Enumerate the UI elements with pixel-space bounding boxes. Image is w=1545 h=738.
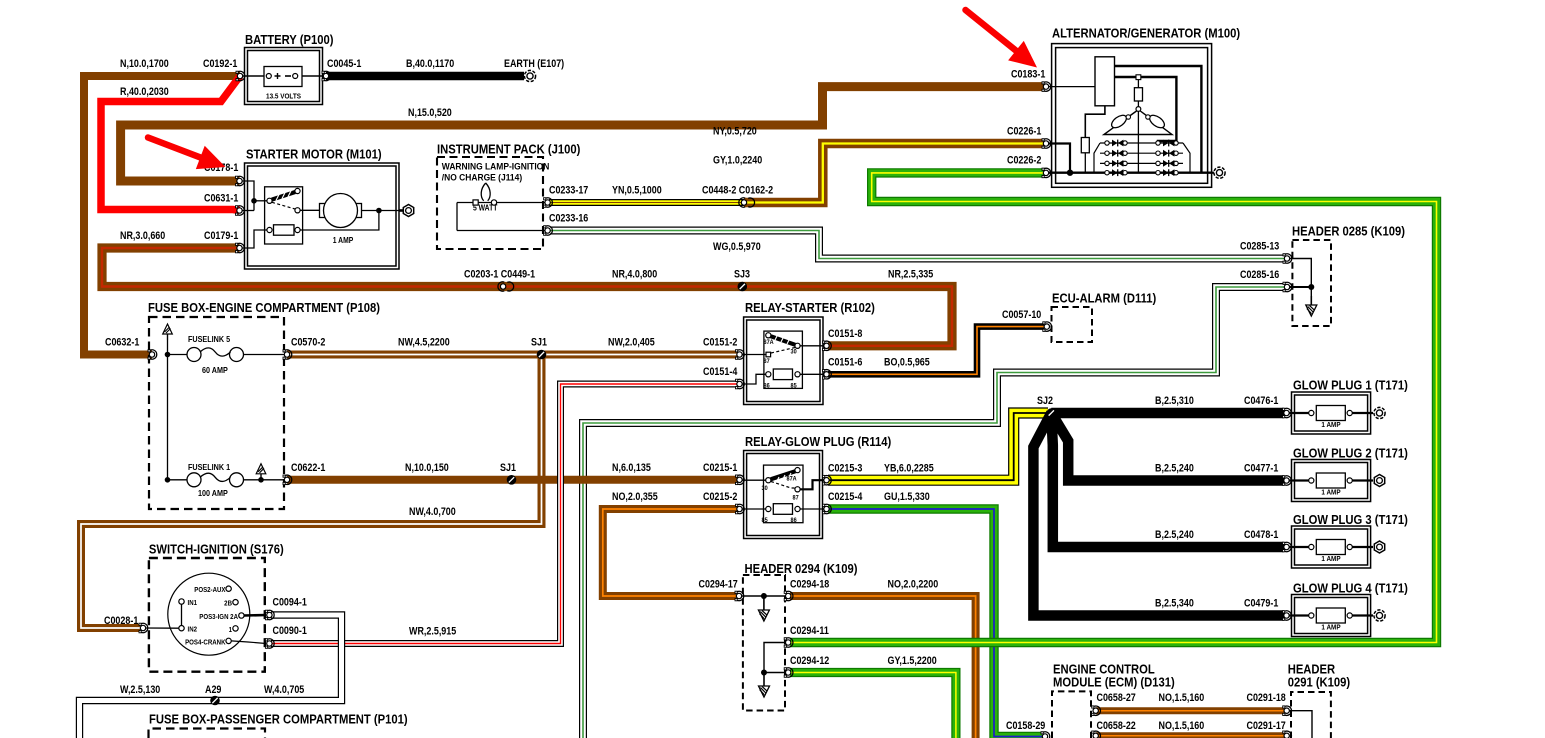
svg-text:FUSELINK 5: FUSELINK 5 [188,334,231,344]
svg-text:1 AMP: 1 AMP [1321,556,1341,564]
wire N,10.0,150 / N,6.0,135 [287,476,737,484]
connector C0448-2 C0162-2 [739,198,755,207]
svg-text:W,2.5,130: W,2.5,130 [120,684,161,696]
wire R,40.0,2030 [101,76,240,211]
terminal nut glow plug 3 stud [1374,541,1384,553]
wire B,40.0,1170 [326,72,524,81]
svg-text:N,15.0,520: N,15.0,520 [408,107,452,119]
svg-text:C0226-1: C0226-1 [1007,126,1042,138]
svg-text:INSTRUMENT PACK (J100): INSTRUMENT PACK (J100) [437,142,580,157]
svg-text:FUSE BOX-PASSENGER COMPARTMENT: FUSE BOX-PASSENGER COMPARTMENT (P101) [149,712,408,727]
connector C0028-1 [139,623,148,633]
svg-text:W,4.0,705: W,4.0,705 [264,684,305,696]
svg-text:B,2.5,240: B,2.5,240 [1155,463,1194,475]
instrument pack J100 [437,157,543,249]
svg-text:RELAY-GLOW PLUG (R114): RELAY-GLOW PLUG (R114) [745,434,891,449]
alternator/generator M100 [1052,44,1212,188]
svg-text:GLOW PLUG 4 (T171): GLOW PLUG 4 (T171) [1293,581,1408,596]
svg-text:C0479-1: C0479-1 [1244,598,1279,610]
wire GU,1.5,330 [828,509,1042,737]
connector C0151-4 [736,379,745,389]
splice A29 [210,696,220,706]
svg-text:C0151-4: C0151-4 [703,366,738,378]
wire NO,2.0,2200 [790,596,976,738]
svg-text:C0631-1: C0631-1 [204,193,239,205]
connector C0233-16 [544,226,553,236]
ECU-alarm D111 [1052,307,1093,342]
svg-text:C0090-1: C0090-1 [273,625,308,637]
terminal stud EARTH (E107) [524,70,535,81]
svg-text:HEADER 0285 (K109): HEADER 0285 (K109) [1292,224,1405,239]
engine control module ECM D131 [1052,691,1091,738]
ground header 0294 ground 1 [758,601,769,621]
warning lamp J114 bulb [473,183,497,205]
connector C0183-1 [1042,82,1051,92]
fuselink 5 [165,340,287,480]
fuse box engine compartment P108 [149,317,284,509]
svg-text:RELAY-STARTER (R102): RELAY-STARTER (R102) [745,300,875,315]
svg-text:SWITCH-IGNITION (S176): SWITCH-IGNITION (S176) [149,542,284,557]
wire B,2.5,310 [1051,408,1284,419]
connector C0226-1 [1042,139,1051,149]
svg-text:IN2: IN2 [188,626,198,634]
wire B,2.5,240 (GP3) [1051,413,1284,547]
svg-text:1 AMP: 1 AMP [333,235,354,245]
svg-text:WG,0.5,970: WG,0.5,970 [713,241,761,253]
connector C0294-17 [735,591,744,601]
svg-text:86: 86 [791,518,798,524]
wire NO,2.0,355 [603,509,737,596]
svg-text:IN1: IN1 [188,599,198,607]
svg-text:GLOW PLUG 2 (T171): GLOW PLUG 2 (T171) [1293,446,1408,461]
svg-text:NO,1.5,160: NO,1.5,160 [1159,720,1205,732]
svg-text:C0215-2: C0215-2 [703,491,738,503]
svg-text:BATTERY (P100): BATTERY (P100) [245,32,333,47]
svg-text:C0192-1: C0192-1 [203,58,238,70]
connector C0215-4 [823,504,832,514]
svg-text:85: 85 [762,518,769,524]
fuse box passenger compartment P101 [149,729,266,738]
glow plug 3 T171 [1292,526,1371,568]
svg-text:1 AMP: 1 AMP [1321,624,1341,632]
connector C0285-16 [1283,282,1292,292]
svg-text:1 AMP: 1 AMP [1321,489,1341,497]
branch arrow fuselink1 branch [256,464,266,480]
svg-text:MODULE (ECM) (D131): MODULE (ECM) (D131) [1053,675,1175,690]
svg-text:EARTH (E107): EARTH (E107) [504,58,564,70]
connector C0632-1 [148,350,157,360]
svg-text:NR,3.0,660: NR,3.0,660 [120,230,166,242]
connector C0622-1 [283,475,292,485]
wire instrument pack internal [456,203,458,231]
svg-text:87: 87 [764,359,771,365]
header 0291 K109 [1291,692,1331,738]
branch arrow fusebox feed [163,324,173,340]
svg-text:87A: 87A [787,476,798,482]
wire B,2.5,340 (GP4) [1033,413,1284,616]
wire WG (to C0285-16) [583,287,1284,738]
connector C0090-1 [265,639,274,649]
svg-text:5 WATT: 5 WATT [473,203,498,213]
connector C0658-27 [1092,706,1101,716]
svg-text:C0158-29: C0158-29 [1006,720,1046,732]
wire GY,1.0,2240 [790,173,1437,643]
svg-text:FUSELINK 1: FUSELINK 1 [188,462,231,472]
wire WG,0.5,970 [550,231,1284,259]
wire B,2.5,240 (GP2) [1051,413,1284,481]
svg-text:WR,2.5,915: WR,2.5,915 [409,626,457,638]
wire NY,0.5,720 [744,144,1044,203]
svg-text:/NO CHARGE (J114): /NO CHARGE (J114) [442,172,522,183]
svg-text:C0294-17: C0294-17 [699,579,739,591]
splice SJ2 [1047,408,1057,418]
connector C0151-6 [823,370,832,380]
svg-text:C0632-1: C0632-1 [105,337,140,349]
terminal nut starter output [403,205,413,217]
connector C0215-1 [736,475,745,485]
svg-text:C0622-1: C0622-1 [291,462,326,474]
svg-text:86: 86 [764,383,771,389]
svg-text:POS3-IGN 2A: POS3-IGN 2A [199,613,238,621]
glow plug 1 T171 [1292,392,1371,434]
connector C0215-2 [736,504,745,514]
svg-text:C0294-12: C0294-12 [790,655,830,667]
svg-text:N,10.0,150: N,10.0,150 [405,462,449,474]
battery P100 [245,48,323,105]
svg-text:NY,0.5,720: NY,0.5,720 [713,126,757,138]
wire NW,4.0,700 [81,355,542,629]
svg-text:YB,6.0,2285: YB,6.0,2285 [884,463,934,475]
svg-text:C0151-6: C0151-6 [828,357,863,369]
wire NO,1.5,160 (C0658-27) [1096,707,1284,714]
svg-text:2B: 2B [224,600,232,608]
header 0285 internal [1289,259,1311,297]
svg-text:NW,4.0,700: NW,4.0,700 [409,506,456,518]
connector C0179-1 [236,243,245,253]
svg-text:87A: 87A [764,340,775,346]
svg-text:WARNING LAMP-IGNITION: WARNING LAMP-IGNITION [442,161,550,172]
connector C0477-1 [1283,476,1292,486]
svg-text:GY,1.0,2240: GY,1.0,2240 [713,155,763,167]
wire NO,1.5,160 (C0658-22) [1096,732,1284,738]
svg-text:C0226-2: C0226-2 [1007,155,1042,167]
svg-text:N,6.0,135: N,6.0,135 [612,462,651,474]
connector C0203-1 C0449-1 [498,282,514,291]
svg-text:C0658-27: C0658-27 [1097,692,1137,704]
svg-text:C0478-1: C0478-1 [1244,529,1279,541]
wire N,10.0,1700 [84,76,240,355]
connector C0479-1 [1283,611,1292,621]
connector C0631-1 [236,206,245,216]
connector C0233-17 [544,198,553,208]
svg-text:100 AMP: 100 AMP [198,488,228,498]
svg-text:C0094-1: C0094-1 [273,597,308,609]
svg-text:1: 1 [229,626,233,634]
connector C0151-2 [736,350,745,360]
connector C0476-1 [1283,408,1292,418]
svg-text:C0233-17: C0233-17 [549,185,589,197]
connector C0057-10 [1043,322,1052,332]
svg-text:NW,4.5,2200: NW,4.5,2200 [398,337,450,349]
splice SJ3 [738,282,748,292]
svg-text:C0183-1: C0183-1 [1011,69,1046,81]
svg-text:GU,1.5,330: GU,1.5,330 [884,491,930,503]
connector C0478-1 [1283,542,1292,552]
connector C0294-18 [784,591,793,601]
svg-text:B,2.5,310: B,2.5,310 [1155,395,1194,407]
svg-text:C0658-22: C0658-22 [1097,720,1137,732]
svg-text:NO,2.0,355: NO,2.0,355 [612,491,658,503]
svg-text:60 AMP: 60 AMP [202,365,228,375]
svg-text:ALTERNATOR/GENERATOR (M100): ALTERNATOR/GENERATOR (M100) [1052,26,1240,41]
wire header 0291 internal link [1289,711,1312,738]
svg-text:SJ1: SJ1 [500,462,516,474]
relay starter R102 [744,317,823,405]
svg-text:NR,2.5,335: NR,2.5,335 [888,269,934,281]
svg-text:C0294-11: C0294-11 [790,625,829,637]
connector C0570-2 [283,350,292,360]
connector C0192-1 [236,71,245,81]
wire N,15.0,520 [121,87,1044,181]
connector C0226-2 [1042,168,1051,178]
svg-text:30: 30 [762,485,769,491]
switch-ignition S176 [149,558,265,672]
connector C0658-22 [1092,731,1101,738]
svg-text:C0448-2 C0162-2: C0448-2 C0162-2 [702,185,773,197]
svg-text:ECU-ALARM (D111): ECU-ALARM (D111) [1052,291,1156,306]
connector C0178-1 [236,176,245,186]
svg-text:N,10.0,1700: N,10.0,1700 [120,58,169,70]
svg-text:C0476-1: C0476-1 [1244,395,1279,407]
svg-text:C0045-1: C0045-1 [327,58,362,70]
connector C0285-13 [1283,254,1292,264]
svg-text:C0291-17: C0291-17 [1247,720,1287,732]
svg-text:STARTER MOTOR (M101): STARTER MOTOR (M101) [246,147,382,162]
svg-text:C0294-18: C0294-18 [790,579,830,591]
svg-text:30: 30 [791,349,798,355]
glow plug 4 T171 [1292,595,1371,637]
header 0294 K109 [743,575,785,711]
wire W,4.0,705 / W,2.5,130 [80,615,342,738]
svg-text:YN,0.5,1000: YN,0.5,1000 [612,185,662,197]
svg-text:B,40.0,1170: B,40.0,1170 [406,58,455,70]
svg-text:85: 85 [791,383,798,389]
svg-text:C0285-16: C0285-16 [1240,269,1280,281]
svg-text:NW,2.0,405: NW,2.0,405 [608,337,655,349]
connector C0151-8 [823,341,832,351]
wire BO,0.5,965 [828,327,1044,375]
svg-text:C0291-18: C0291-18 [1247,692,1287,704]
splice SJ1 [537,350,547,360]
svg-text:POS2-AUX: POS2-AUX [194,587,226,595]
svg-text:GLOW PLUG 3 (T171): GLOW PLUG 3 (T171) [1293,512,1408,527]
svg-text:1 AMP: 1 AMP [1321,422,1341,430]
header 0285 K109 [1292,240,1331,326]
glow plug 2 T171 [1292,460,1371,502]
svg-text:HEADER 0294 (K109): HEADER 0294 (K109) [745,561,858,576]
ignition switch rotary [145,573,266,655]
svg-text:0291 (K109): 0291 (K109) [1288,675,1350,690]
svg-text:BO,0.5,965: BO,0.5,965 [884,357,930,369]
svg-text:NR,4.0,800: NR,4.0,800 [612,269,658,281]
svg-text:SJ2: SJ2 [1037,395,1053,407]
ground header 0294 ground 2 [759,677,770,697]
svg-text:C0057-10: C0057-10 [1002,309,1042,321]
svg-text:A29: A29 [205,684,222,696]
red arrow pointing at C0178-1 [148,138,226,170]
connector C0291-17 [1283,731,1292,738]
svg-text:C0151-2: C0151-2 [703,337,738,349]
svg-text:FUSE BOX-ENGINE COMPARTMENT (P: FUSE BOX-ENGINE COMPARTMENT (P108) [148,300,380,315]
svg-text:13.5 VOLTS: 13.5 VOLTS [266,93,301,101]
wire YN,0.5,1000 [549,199,744,206]
ground header 0285 ground [1306,296,1317,316]
terminal stud glow plug 1 stud [1374,407,1385,418]
svg-text:C0285-13: C0285-13 [1240,241,1280,253]
svg-text:NO,2.0,2200: NO,2.0,2200 [888,579,939,591]
header 0294 internals [741,595,786,597]
terminal nut glow plug 2 stud [1374,475,1384,487]
svg-text:C0179-1: C0179-1 [204,230,239,242]
wire WR,2.5,915 [271,384,737,644]
svg-text:B,2.5,340: B,2.5,340 [1155,598,1194,610]
svg-text:GLOW PLUG 1 (T171): GLOW PLUG 1 (T171) [1293,378,1408,393]
svg-text:C0477-1: C0477-1 [1244,463,1279,475]
red arrow pointing at C0183-1 [966,10,1038,68]
fuselink 1 [165,473,287,487]
wire NR,3.0,660 / NR,4.0,800 / NR,2.5,335 [102,248,952,346]
connector C0294-12 [784,668,793,678]
splice SJ1 (b) [507,475,517,485]
svg-text:SJ1: SJ1 [531,337,547,349]
connector C0215-3 [823,475,832,485]
connector C0158-29 [1041,732,1050,738]
svg-text:R,40.0,2030: R,40.0,2030 [120,86,169,98]
svg-text:C0570-2: C0570-2 [291,337,326,349]
svg-text:GY,1.5,2200: GY,1.5,2200 [888,655,938,667]
connector C0291-18 [1283,706,1292,716]
wire GY,1.5,2200 [790,673,956,738]
svg-text:C0215-3: C0215-3 [828,463,863,475]
relay glow plug R114 [744,451,823,539]
svg-text:C0215-1: C0215-1 [703,462,738,474]
svg-text:87: 87 [793,495,800,501]
svg-text:NO,1.5,160: NO,1.5,160 [1159,692,1205,704]
terminal stud alternator B+ stud [1214,167,1225,178]
wire YB,6.0,2285 [828,413,1048,480]
svg-text:C0151-8: C0151-8 [828,328,863,340]
connector C0094-1 [265,610,274,620]
wire NW,4.5,2200 / NW,2.0,405 [287,351,737,359]
svg-text:SJ3: SJ3 [734,269,750,281]
svg-text:B,2.5,240: B,2.5,240 [1155,529,1194,541]
terminal stud glow plug 4 stud [1374,610,1385,621]
starter motor M101 [245,163,400,269]
connector C0045-1 [322,71,331,81]
svg-text:C0028-1: C0028-1 [104,615,139,627]
svg-text:C0233-16: C0233-16 [549,213,589,225]
connector C0294-11 [784,638,793,648]
svg-text:C0203-1 C0449-1: C0203-1 C0449-1 [464,269,535,281]
svg-text:C0215-4: C0215-4 [828,491,863,503]
svg-text:POS4-CRANK: POS4-CRANK [185,639,226,647]
